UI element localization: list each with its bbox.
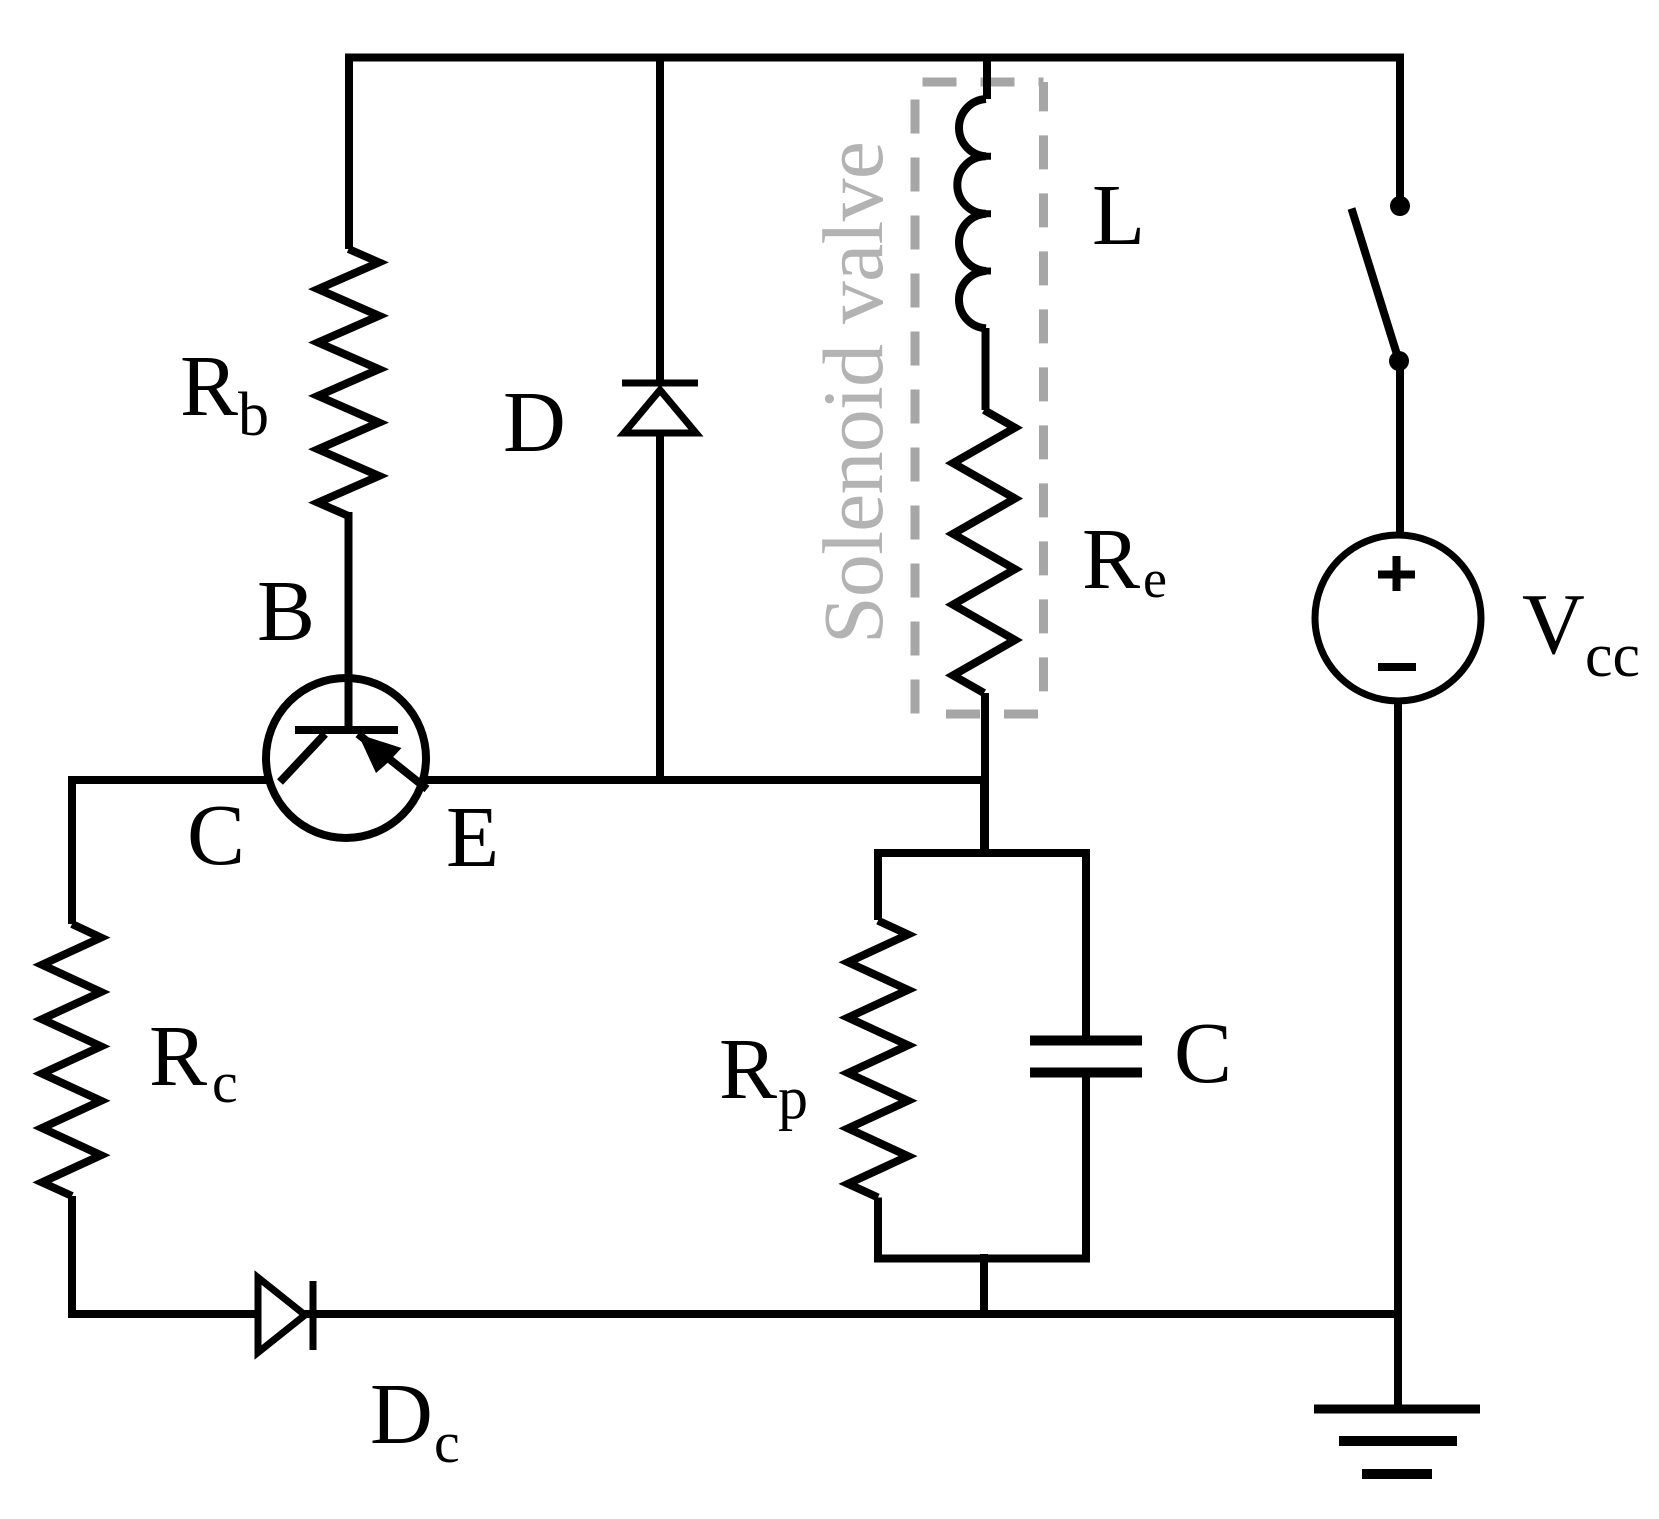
transistor Q1 base bar (295, 726, 398, 734)
source Vcc minus sign (1378, 663, 1416, 671)
wire Rp bottom lead (874, 1198, 882, 1263)
wire inductor to Re (982, 328, 990, 410)
transistor Q1 emitter arrow (PNP) (358, 734, 402, 773)
wire Rb top lead (345, 54, 353, 250)
switch upper contact dot (1390, 196, 1410, 216)
svg-text:L: L (1092, 166, 1145, 263)
wire collector horizontal (68, 776, 268, 784)
wire collector down lead (68, 776, 76, 924)
wire inductor top lead (983, 54, 991, 100)
svg-text:b: b (238, 381, 269, 449)
wire parallel box top (878, 849, 1086, 857)
capacitor C top plate (1030, 1036, 1142, 1046)
wire switch top lead (1396, 54, 1404, 207)
resistor Re (953, 410, 1015, 693)
wire emitter node to box (980, 776, 988, 857)
svg-text:C: C (1174, 1004, 1232, 1101)
svg-text:D: D (370, 1365, 433, 1462)
svg-text:c: c (434, 1410, 460, 1475)
source Vcc plus sign (1378, 556, 1415, 591)
inductor L (957, 99, 986, 328)
svg-text:E: E (446, 788, 499, 885)
transistor Q1 collector diagonal (280, 734, 325, 782)
wire Rp top lead (874, 849, 882, 920)
svg-text:R: R (719, 1020, 777, 1117)
transistor Q1 circle (266, 678, 426, 838)
wire diode D bottom lead (656, 433, 664, 780)
ground middle bar (1339, 1436, 1457, 1446)
svg-text:Solenoid valve: Solenoid valve (805, 142, 901, 644)
diode Dc triangle (258, 1278, 305, 1353)
svg-text:V: V (1522, 575, 1585, 672)
ground bottom bar (1362, 1469, 1432, 1479)
switch blade (1352, 209, 1400, 362)
wire Rc bottom lead (68, 1196, 76, 1318)
svg-text:R: R (180, 337, 238, 434)
wire emitter horizontal (424, 776, 989, 784)
source Vcc circle (1315, 535, 1481, 701)
resistor Rp (848, 921, 908, 1198)
svg-text:D: D (503, 373, 566, 470)
solenoid valve dashed box top edge (923, 78, 1044, 87)
svg-text:e: e (1143, 549, 1167, 609)
solenoid valve dashed box right edge (1039, 82, 1048, 714)
wire top bus (345, 54, 1404, 62)
switch lower contact dot (1389, 351, 1409, 371)
wire capacitor top lead (1082, 849, 1090, 1036)
transistor Q1 emitter diagonal (358, 734, 427, 789)
ground top bar (1314, 1405, 1480, 1414)
wire Re bottom lead to emitter node (981, 693, 989, 857)
wire capacitor bottom lead (1082, 1078, 1090, 1263)
svg-text:R: R (1082, 510, 1140, 607)
resistor Rb (318, 249, 379, 516)
solenoid valve dashed box bottom edge (946, 710, 1044, 719)
svg-text:B: B (257, 562, 315, 659)
inductor L cusp ticks (984, 156, 991, 271)
svg-text:cc: cc (1585, 622, 1640, 690)
svg-text:p: p (778, 1065, 808, 1131)
wire parallel box bottom (874, 1255, 1090, 1263)
diode D triangle (624, 390, 696, 433)
diode Dc cathode bar (310, 1281, 317, 1350)
solenoid valve dashed box left edge (911, 100, 920, 715)
wire bottom bus (68, 1310, 1398, 1318)
wire diode D top lead (656, 54, 664, 381)
wire base lead (node B) (345, 512, 353, 730)
svg-text:C: C (187, 786, 245, 883)
wire switch to source (1396, 361, 1404, 535)
wire box bottom to bus (980, 1254, 988, 1318)
resistor Rc (42, 924, 101, 1196)
svg-text:c: c (212, 1050, 238, 1115)
diode D cathode bar (622, 380, 698, 387)
capacitor C bottom plate (1030, 1068, 1142, 1078)
svg-text:R: R (149, 1007, 207, 1104)
wire source to ground (1394, 699, 1402, 1409)
